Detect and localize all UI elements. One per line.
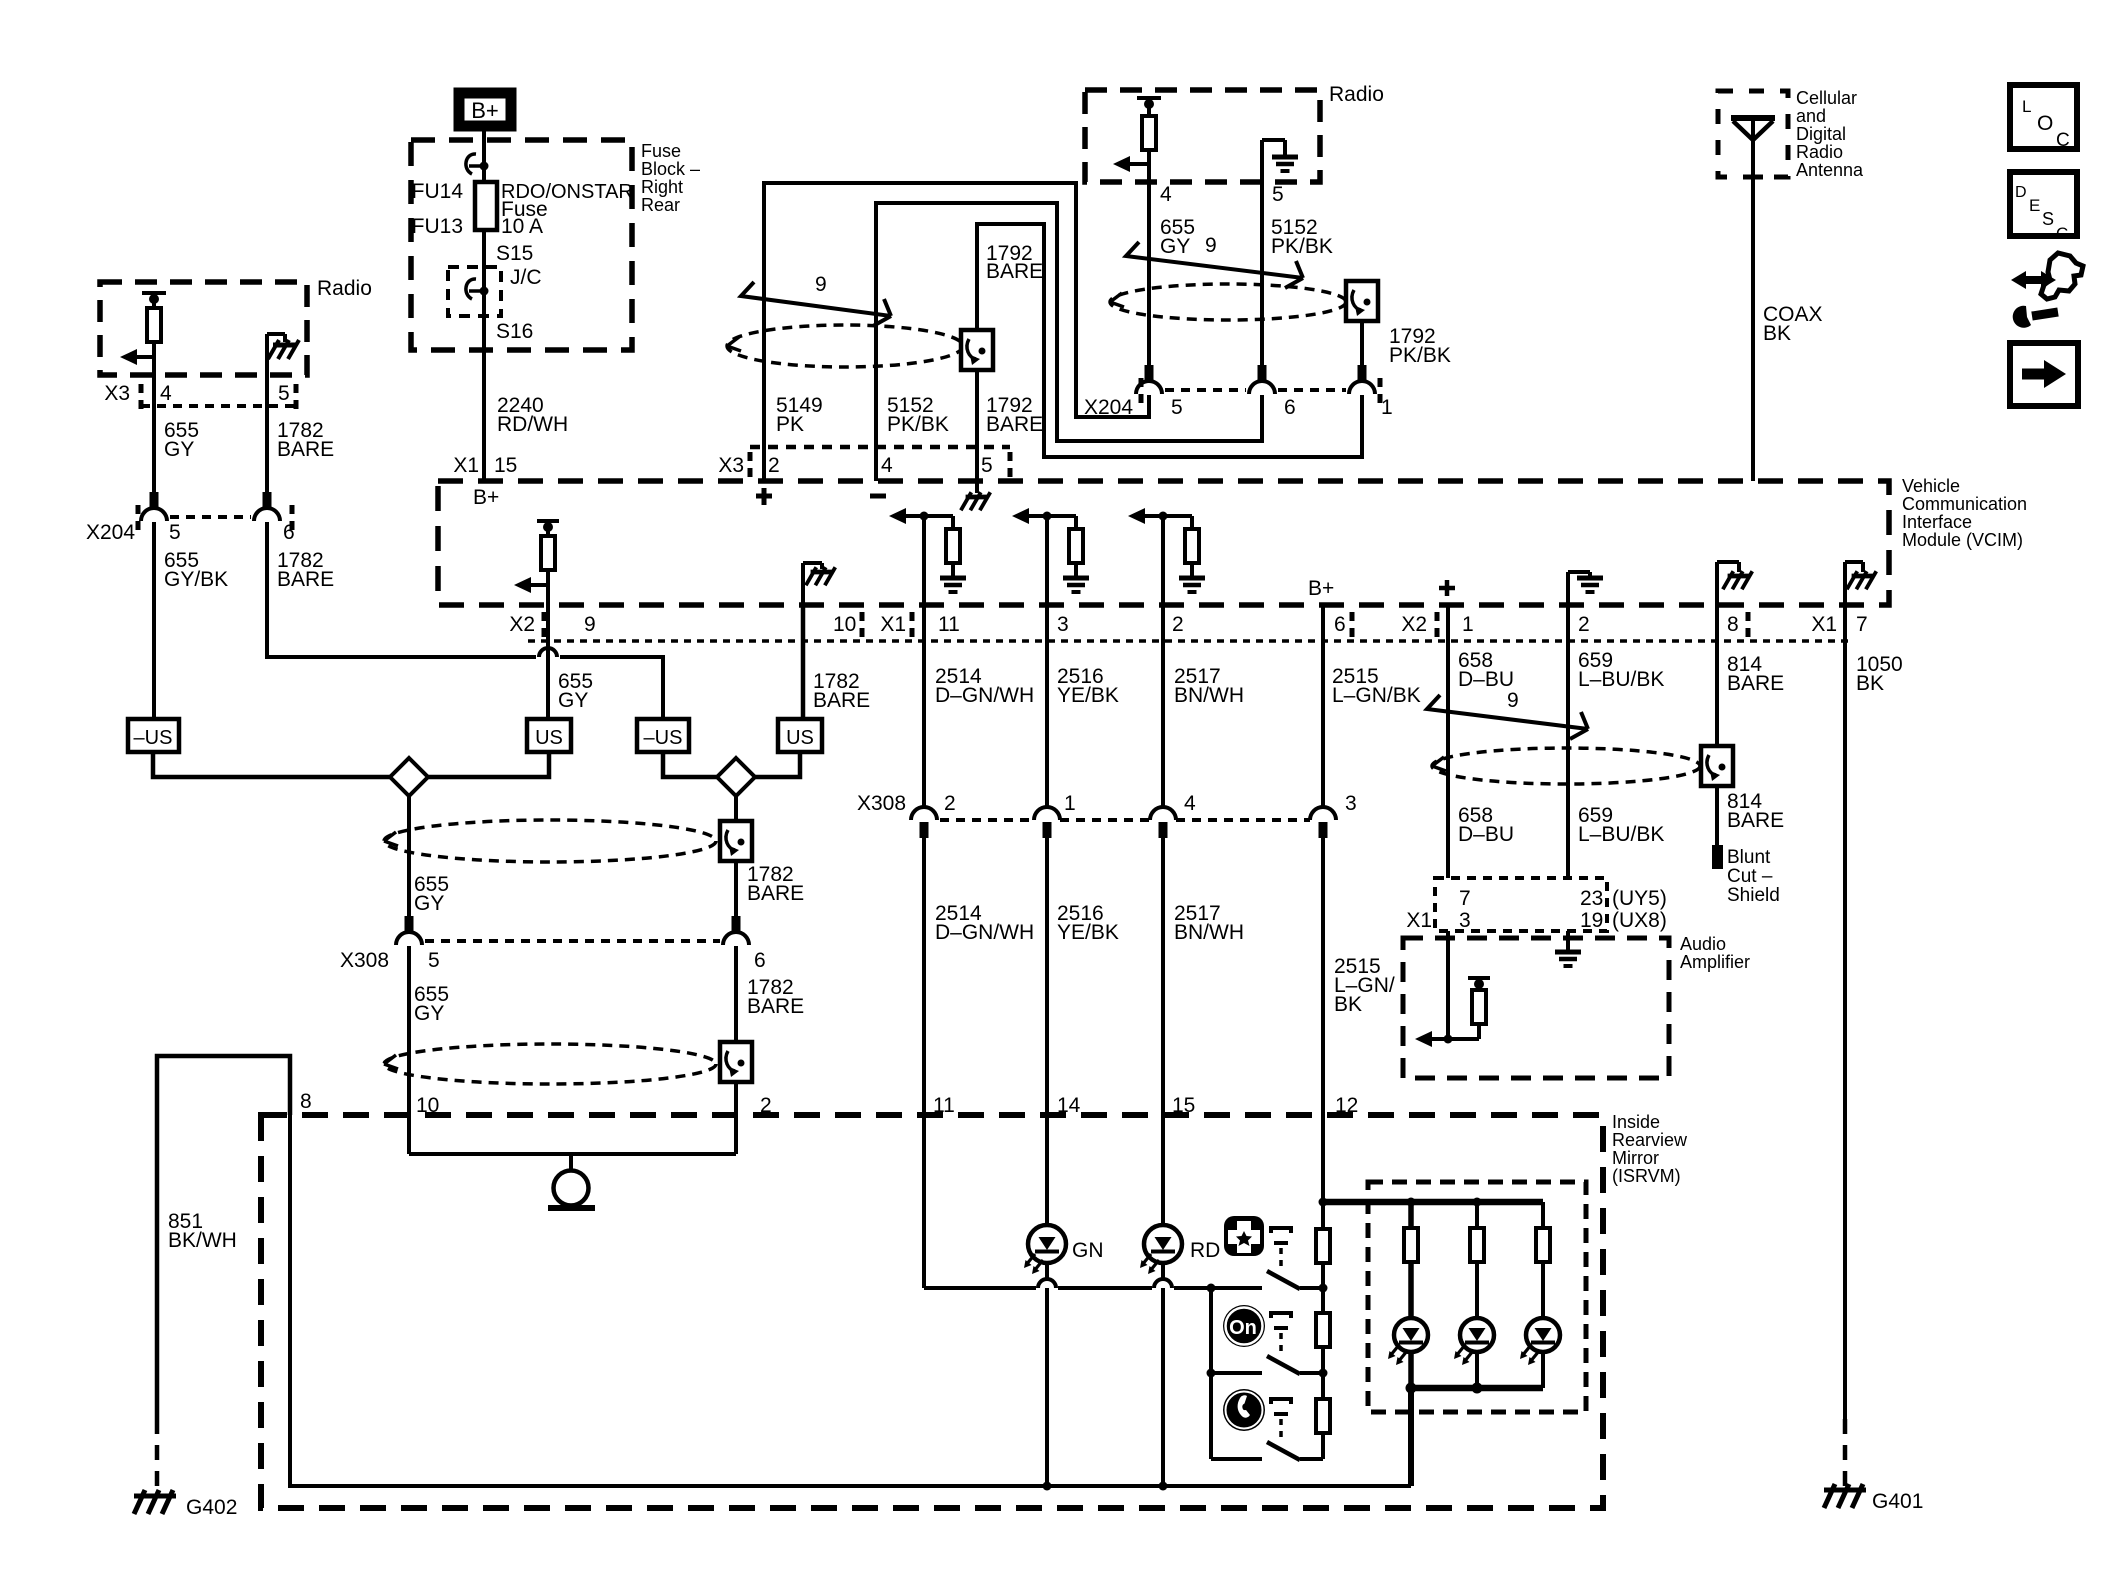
svg-text:D–GN/WH: D–GN/WH (935, 921, 1034, 944)
resistor R2 chain (1316, 1313, 1330, 1347)
bus to switch 2 (1211, 1371, 1262, 1375)
wire 655 GY from X2-9 down to US (546, 604, 550, 657)
svg-text:3: 3 (1345, 792, 1357, 815)
svg-text:5: 5 (981, 454, 993, 477)
junction 2515/LED rail (1319, 1198, 1328, 1207)
svg-text:J/C: J/C (510, 266, 542, 289)
svg-text:4: 4 (160, 382, 172, 405)
connector X204 pin 6 (left) (254, 492, 280, 521)
arrow internal amplifier (1415, 1031, 1479, 1047)
svg-text:1: 1 (1064, 792, 1076, 815)
shield twist indicator 9 (741, 282, 891, 326)
wire 655 GY diamond1 to X308-5 (407, 796, 411, 916)
resistor R3 chain (1316, 1399, 1330, 1433)
svg-text:9: 9 (1507, 689, 1519, 712)
legend icon DESC (2010, 172, 2077, 243)
svg-text:X308: X308 (340, 949, 389, 972)
svg-text:D–BU: D–BU (1458, 668, 1514, 691)
svg-text:PK/BK: PK/BK (1389, 344, 1451, 367)
cellular antenna dashed box (1718, 91, 1788, 177)
svg-text:7: 7 (1856, 613, 1868, 636)
wire 659 L-BU/BK VCIM X2-2 to amplifier (1566, 604, 1570, 878)
wire 658 D-BU VCIM X2-1 to amplifier (1446, 604, 1450, 878)
svg-text:S: S (2042, 209, 2054, 229)
wire 814 BARE shield box to blunt cut (1715, 782, 1719, 845)
wire 655 GY/BK down to -US box (152, 522, 156, 719)
svg-text:B+: B+ (473, 486, 499, 509)
svg-text:X2: X2 (509, 613, 535, 636)
junction chain tap 2 (1319, 1369, 1328, 1378)
connector X204 pin 1 (1349, 365, 1375, 394)
resistor mirror LED 2 (1470, 1228, 1484, 1262)
svg-text:G401: G401 (1872, 1490, 1923, 1513)
wire 655 GY radio pin 4 down to X204 pin 5 (1147, 164, 1151, 365)
wire 2514 to ISRVM pin 11 (922, 831, 926, 1288)
svg-text:US: US (535, 727, 563, 749)
svg-text:15: 15 (494, 454, 517, 477)
wire 5152 PK/BK radio pin 5 down to X204 pin 6 (1260, 182, 1264, 365)
svg-text:(UX8): (UX8) (1612, 909, 1667, 932)
svg-text:X2: X2 (1401, 613, 1427, 636)
chassis ground at X2-10 (806, 567, 835, 585)
svg-text:2: 2 (944, 792, 956, 815)
Inside Rearview Mirror (ISRVM) dashed box (261, 1115, 1603, 1508)
svg-text:Rearview: Rearview (1612, 1130, 1688, 1150)
svg-text:Radio: Radio (317, 277, 372, 300)
svg-text:6: 6 (754, 949, 766, 972)
svg-text:5: 5 (278, 382, 290, 405)
wire 1050 BK VCIM X1-7 to G401 (1843, 604, 1847, 1419)
svg-text:X308: X308 (857, 792, 906, 815)
arrow internal VCIM (514, 577, 548, 593)
svg-text:10: 10 (833, 613, 856, 636)
svg-text:9: 9 (1205, 234, 1217, 257)
shield termination (961, 330, 993, 370)
switch bus vertical (1209, 1288, 1213, 1459)
svg-text:Right: Right (641, 177, 683, 197)
svg-text:D–GN/WH: D–GN/WH (935, 684, 1034, 707)
wire 658 inside amplifier (1446, 931, 1450, 1039)
ground G402 (134, 1490, 176, 1514)
junction 2516/ground bus (1043, 1482, 1052, 1491)
mirror LED resistors (1408, 1202, 1414, 1228)
bus to switch 3 (1211, 1457, 1262, 1461)
diamond splice 2 (717, 758, 755, 796)
LED return rail (1411, 1385, 1543, 1392)
earth ground in amplifier (1555, 952, 1581, 966)
svg-text:11: 11 (938, 613, 960, 636)
-US box (right) (637, 719, 689, 752)
wire 1792 PK/BK from shield box to X204 pin 1 (1360, 321, 1364, 365)
svg-text:(ISRVM): (ISRVM) (1612, 1166, 1681, 1186)
earth ground symbol in top radio (1272, 157, 1298, 171)
svg-text:BARE: BARE (277, 568, 334, 591)
svg-text:B+: B+ (1308, 577, 1334, 600)
US box (527, 719, 571, 752)
wire (152, 342, 156, 357)
svg-text:–US: –US (644, 727, 683, 749)
svg-text:6: 6 (1334, 613, 1346, 636)
blunt cut shield terminal (1712, 845, 1723, 869)
crossover hop over X2-9 wire (539, 648, 557, 657)
fuse RDO/ONSTAR 10A (475, 182, 497, 230)
svg-text:C: C (2056, 224, 2068, 243)
audio amplifier connector box (1435, 878, 1607, 931)
wire X1-2 down to connector (1161, 516, 1165, 604)
chassis ground at X1-7 (1845, 562, 1863, 604)
LED RD (1140, 1225, 1182, 1274)
connector X308 pin 4 (1150, 807, 1176, 838)
plus symbol at X2-1 (1439, 580, 1455, 596)
svg-text:L–GN/BK: L–GN/BK (1332, 684, 1421, 707)
chassis ground under X3-5 (975, 481, 979, 493)
twisted pair ellipse 658/659 (1432, 748, 1700, 784)
earth ground at X1-3 (1063, 578, 1089, 592)
svg-text:PK/BK: PK/BK (887, 413, 949, 436)
pullup source at VCIM X1-11 (889, 508, 924, 524)
connector X204 dashed line (1165, 388, 1246, 392)
svg-text:19: 19 (1580, 909, 1603, 932)
svg-text:Blunt: Blunt (1727, 847, 1771, 868)
wires joining diamond 1 (153, 752, 392, 777)
svg-text:X3: X3 (104, 382, 130, 405)
svg-text:Block –: Block – (641, 159, 700, 179)
svg-text:GY: GY (558, 689, 588, 712)
connector X308 pin 2 (911, 807, 937, 838)
legend icon LOC (2010, 85, 2077, 151)
svg-text:FU13: FU13 (412, 215, 463, 238)
connector row dashed line (528, 639, 1848, 643)
svg-text:7: 7 (1459, 887, 1471, 910)
svg-text:G402: G402 (186, 1496, 237, 1519)
svg-text:X1: X1 (880, 613, 906, 636)
shield termination 814 (1701, 746, 1733, 786)
svg-text:E: E (2029, 196, 2040, 215)
svg-text:GY/BK: GY/BK (164, 568, 228, 591)
connector X308 pin 5 (396, 916, 422, 945)
svg-text:GY: GY (164, 438, 194, 461)
plunger button 2 (1271, 1313, 1291, 1354)
audio amplifier dashed box (1403, 938, 1669, 1078)
svg-text:(UY5): (UY5) (1612, 887, 1667, 910)
fuse block dashed box (411, 140, 632, 350)
junction bus/switch2 (1207, 1369, 1216, 1378)
svg-text:5: 5 (169, 521, 181, 544)
twisted shielded pair ellipse (1110, 284, 1346, 320)
svg-text:RD/WH: RD/WH (497, 413, 568, 436)
junction chain tap 1 (1319, 1284, 1328, 1293)
wire 2517 to ISRVM pin 15 and RD LED (1161, 831, 1165, 1225)
switch 2 (1267, 1356, 1323, 1374)
wire X1-11 down to connector (922, 516, 926, 604)
shield twist indicator 9 (1126, 242, 1303, 288)
svg-text:BARE: BARE (747, 882, 804, 905)
svg-text:9: 9 (815, 273, 827, 296)
shield twist indicator 9 (1427, 695, 1588, 739)
wire 2515 to ISRVM pin 12 (1321, 831, 1325, 1202)
junction switch bus (1207, 1284, 1216, 1293)
phone button (1223, 1389, 1265, 1431)
radio (left) dashed box (100, 282, 307, 375)
wire 1050 BK dashed portion (1843, 1419, 1848, 1486)
ground path at VCIM X2-10 (803, 563, 822, 604)
svg-text:BARE: BARE (1727, 672, 1784, 695)
svg-text:2: 2 (768, 454, 780, 477)
connector X3 (left radio) (139, 384, 144, 409)
svg-text:BK: BK (1763, 322, 1791, 345)
OnStar button (1223, 1305, 1265, 1347)
twisted shielded pair ellipse (727, 325, 963, 367)
wire 5152 PK/BK from X3-4 to X204 pin 6 (876, 203, 1262, 481)
svg-text:L: L (2022, 97, 2031, 116)
svg-text:YE/BK: YE/BK (1057, 921, 1119, 944)
hop over GN LED wire (1038, 1279, 1056, 1288)
svg-text:Cut –: Cut – (1727, 866, 1773, 887)
wire 2516 to ISRVM pin 14 and GN LED (1045, 831, 1049, 1225)
svg-text:D: D (2015, 184, 2027, 201)
wire X1-3 down to connector (1045, 516, 1049, 604)
svg-text:S16: S16 (496, 320, 533, 343)
return rail to ground bus (1408, 1388, 1414, 1486)
legend icon arrow box (2010, 343, 2078, 406)
mirror LED 2 (1454, 1318, 1494, 1365)
wire 1782 BARE down then right toward -US (267, 522, 536, 657)
hop over RD LED wire (1154, 1279, 1172, 1288)
svg-text:1: 1 (1462, 613, 1474, 636)
svg-text:Cellular: Cellular (1796, 88, 1857, 108)
wire (1147, 150, 1151, 164)
svg-text:8: 8 (300, 1090, 312, 1113)
wire 655 GY to microphone (407, 946, 411, 1154)
emergency button (cross) (1224, 1216, 1264, 1256)
svg-text:4: 4 (881, 454, 893, 477)
earth ground in top radio (1262, 140, 1285, 182)
svg-text:PK: PK (776, 413, 804, 436)
wire 5149 PK from X3-2 up and over to X204 pin 5 (764, 183, 1149, 481)
svg-text:Inside: Inside (1612, 1112, 1660, 1132)
svg-text:Audio: Audio (1680, 934, 1726, 954)
svg-text:BN/WH: BN/WH (1174, 921, 1244, 944)
svg-text:and: and (1796, 106, 1826, 126)
wire 814 BARE VCIM X1-8 to shield box (1715, 604, 1719, 750)
connector X204 pin 6 (1249, 365, 1275, 394)
wire COAX BK antenna to VCIM (1751, 118, 1755, 481)
radio (top) dashed box (1085, 90, 1320, 182)
mirror LED 1 (1388, 1318, 1428, 1365)
svg-text:S15: S15 (496, 242, 533, 265)
wire 2516 LED to ground bus (1045, 1263, 1049, 1486)
svg-text:2: 2 (1172, 613, 1184, 636)
wire 2240 RD/WH from B+ through fuse block to VCIM X1-15 (482, 131, 486, 481)
svg-text:4: 4 (1160, 183, 1172, 206)
connector X308 pin 1 (1034, 807, 1060, 838)
svg-text:5: 5 (1272, 183, 1284, 206)
pullup source at VCIM X1-3 (1012, 508, 1047, 524)
wire 2517 LED to ground bus (1161, 1263, 1165, 1486)
svg-text:5: 5 (428, 949, 440, 972)
voltage source symbol at VCIM X2-9 (537, 521, 559, 536)
svg-text:PK/BK: PK/BK (1271, 235, 1333, 258)
arrow to radio internal circuit (1113, 156, 1149, 172)
LED GN (1024, 1225, 1066, 1274)
svg-text:C: C (2056, 130, 2070, 151)
resistor mirror LED 3 (1536, 1228, 1550, 1262)
svg-text:GN: GN (1072, 1239, 1104, 1262)
LED feed rail (1323, 1199, 1543, 1206)
switch 1 (1267, 1271, 1323, 1289)
US box (right) (778, 719, 822, 752)
connector X308 pin 3 (1310, 807, 1336, 838)
antenna symbol (1731, 118, 1775, 177)
svg-text:BARE: BARE (747, 995, 804, 1018)
svg-text:BARE: BARE (986, 413, 1043, 436)
svg-text:O: O (2037, 112, 2053, 135)
twisted pair ellipse mid (384, 820, 716, 862)
svg-text:BK: BK (1856, 672, 1884, 695)
diamond splice 1 (390, 758, 428, 796)
junction 2517/ground bus (1159, 1482, 1168, 1491)
chassis ground symbol in left radio (268, 340, 299, 359)
voltage source symbol in left radio (142, 293, 166, 308)
earth ground at X2-2 (1568, 572, 1590, 604)
svg-text:Module (VCIM): Module (VCIM) (1902, 530, 2023, 550)
wire 1782 BARE from X2-10 down to US (801, 604, 806, 719)
shield termination lower (720, 1042, 752, 1082)
wire 2515 L-GN/BK VCIM to X308 (1321, 604, 1325, 807)
plunger button 3 (1271, 1399, 1291, 1440)
junction connector J/C box (448, 267, 501, 316)
battery feed B+ box (459, 93, 511, 126)
svg-text:RD: RD (1190, 1239, 1220, 1262)
svg-text:2: 2 (1578, 613, 1590, 636)
connector X308 dashed line (940, 818, 1034, 822)
svg-text:X1: X1 (1811, 613, 1837, 636)
wire 2514 D-GN/WH VCIM to X308 (922, 604, 926, 807)
connector X204 dashed line (170, 515, 251, 519)
pullup source in amplifier (1468, 978, 1490, 990)
svg-text:B+: B+ (471, 98, 499, 123)
wire 1782 BARE radio pin X3-5 down to X204 pin 6 (265, 375, 269, 492)
svg-text:23: 23 (1580, 887, 1603, 910)
svg-text:On: On (1229, 1317, 1257, 1339)
svg-text:Radio: Radio (1329, 83, 1384, 106)
svg-text:BARE: BARE (1727, 809, 1784, 832)
arrow to radio internal circuit (120, 349, 154, 365)
connector FU14/FU13 terminal (466, 154, 489, 174)
wire 1782 BARE continues to -US box (560, 657, 663, 719)
svg-text:BN/WH: BN/WH (1174, 684, 1244, 707)
wire 1782 BARE diamond2 to X308-6 (734, 796, 738, 826)
mirror LED 3 (1520, 1318, 1560, 1365)
svg-text:3: 3 (1459, 909, 1471, 932)
Vehicle Communication Interface Module (VCIM) dashed box (438, 481, 1889, 605)
svg-text:X3: X3 (718, 454, 744, 477)
resistor mirror LED 1 (1404, 1228, 1418, 1262)
svg-text:5: 5 (1171, 396, 1183, 419)
plunger button 1 (1271, 1228, 1291, 1270)
wire 851 dashed portion (155, 1419, 160, 1488)
svg-text:Fuse: Fuse (641, 141, 681, 161)
svg-text:Radio: Radio (1796, 142, 1843, 162)
svg-text:BARE: BARE (813, 689, 870, 712)
plus symbol under X3-2 (756, 488, 772, 505)
earth ground at X1-11 (940, 578, 966, 592)
wire 655 GY radio pin X3-4 down to X204 pin 5 (152, 357, 156, 492)
wire to X2-9 (546, 585, 550, 604)
svg-text:BARE: BARE (277, 438, 334, 461)
svg-text:Interface: Interface (1902, 512, 1972, 532)
svg-text:Antenna: Antenna (1796, 160, 1864, 180)
wire 1782 BARE to microphone shield (734, 946, 738, 1045)
twisted pair ellipse lower (384, 1044, 716, 1084)
svg-text:3: 3 (1057, 613, 1069, 636)
svg-text:Communication: Communication (1902, 494, 2027, 514)
shield termination mid (720, 821, 752, 861)
resistor in top radio (1142, 116, 1156, 150)
svg-text:–US: –US (134, 727, 173, 749)
svg-text:D–BU: D–BU (1458, 823, 1514, 846)
resistor R1 chain (1316, 1229, 1330, 1263)
svg-text:X1: X1 (453, 454, 479, 477)
connector X204 pin 5 (left) (141, 492, 167, 521)
svg-text:10 A: 10 A (501, 215, 543, 238)
svg-text:Digital: Digital (1796, 124, 1846, 144)
svg-text:X204: X204 (1084, 396, 1133, 419)
connector X308 pin 6 (723, 916, 749, 945)
ground G401 (1824, 1484, 1866, 1508)
wires joining diamond 2 (663, 752, 719, 777)
mirror LED cluster dashed box (1368, 1182, 1586, 1412)
chassis ground at X1-8 (1717, 562, 1739, 604)
switch 3 (1267, 1442, 1323, 1460)
svg-text:1: 1 (1381, 396, 1393, 419)
svg-text:4: 4 (1184, 792, 1196, 815)
wire 2517 BN/WH VCIM to X308 (1161, 604, 1165, 807)
svg-text:Shield: Shield (1727, 885, 1780, 906)
svg-text:YE/BK: YE/BK (1057, 684, 1119, 707)
svg-text:Vehicle: Vehicle (1902, 476, 1960, 496)
wire 659 inside amplifier (1566, 931, 1570, 950)
wire 2516 YE/BK VCIM to X308 (1045, 604, 1049, 807)
wire 2514 feed to switches (924, 1286, 1036, 1290)
-US box (left) (128, 719, 179, 752)
connector X204 pin 5 (1136, 365, 1162, 394)
ground (chassis) in left radio (267, 334, 285, 375)
svg-text:Rear: Rear (641, 195, 680, 215)
svg-text:L–BU/BK: L–BU/BK (1578, 823, 1664, 846)
svg-text:FU14: FU14 (412, 180, 464, 203)
svg-text:Amplifier: Amplifier (1680, 952, 1750, 972)
junction 658/pullup (1444, 1035, 1453, 1044)
internal ground bus of ISRVM (290, 1115, 1411, 1486)
connector terminal in J/C (466, 279, 489, 299)
svg-text:X1: X1 (1406, 909, 1432, 932)
wire 1792 BARE from X3-5 to X204 pin 1 (977, 224, 1362, 481)
svg-text:6: 6 (283, 521, 295, 544)
svg-text:BARE: BARE (986, 260, 1043, 283)
resistor in left radio (147, 308, 161, 342)
svg-text:X204: X204 (86, 521, 135, 544)
svg-text:8: 8 (1727, 613, 1739, 636)
connector X308 dashed line (425, 939, 720, 943)
svg-text:6: 6 (1284, 396, 1296, 419)
svg-text:Mirror: Mirror (1612, 1148, 1659, 1168)
pullup source at VCIM X1-2 (1128, 508, 1163, 524)
svg-text:GY: GY (1160, 235, 1190, 258)
svg-text:US: US (786, 727, 814, 749)
earth ground at X1-2 (1179, 578, 1205, 592)
svg-text:GY: GY (414, 892, 444, 915)
